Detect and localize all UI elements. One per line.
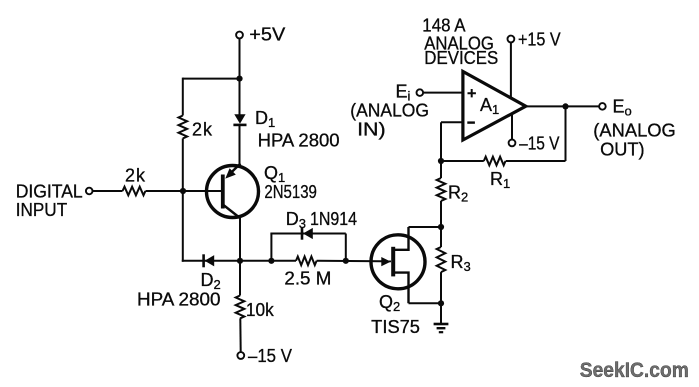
wire 2.5M to Q2 gate <box>317 260 391 263</box>
svg-text:10k: 10k <box>246 300 275 320</box>
wire D2 branch (left end to collector node) <box>182 260 240 262</box>
svg-text:+15 V: +15 V <box>518 30 561 50</box>
wire top connector to left branch <box>183 78 240 80</box>
terminal Ei <box>417 89 424 96</box>
junction source / R3-ground <box>438 300 444 306</box>
wire left branch upper <box>182 78 184 116</box>
svg-text:–15 V: –15 V <box>248 346 292 366</box>
wire collector node to 10k <box>239 261 241 296</box>
diode D2 (HPA 2800, pointing left) <box>204 254 215 267</box>
wire Ei to noninverting input <box>423 92 463 94</box>
wire Q2 drain connector <box>409 226 442 228</box>
terminal -15V (op-amp) <box>509 140 516 147</box>
diode D3 (1N914, pointing left) <box>302 227 313 239</box>
terminal Eo <box>599 103 606 110</box>
junction base node <box>180 188 186 194</box>
wire -15V stub from op-amp <box>511 114 513 140</box>
wire D2 node to D3 node <box>240 260 271 262</box>
op-amp A1 <box>463 72 526 141</box>
wire R2 to drain node <box>440 201 442 227</box>
svg-text:2k: 2k <box>192 120 213 140</box>
wire +5V rail to D1 <box>239 79 241 115</box>
wire D3 right stub <box>345 234 347 261</box>
wire +5V down to top junction <box>239 39 241 79</box>
transistor Q1 2N5139 <box>207 164 259 219</box>
wire +15V to op-amp <box>510 43 512 98</box>
junction drain / R2-R3 <box>438 224 444 230</box>
wire left branch middle <box>182 138 184 191</box>
wire 2k to Q1 base <box>146 190 223 192</box>
resistor R3 <box>437 247 446 272</box>
terminal -15V (bottom) <box>237 352 244 359</box>
wire to inverting input <box>441 121 463 123</box>
wire left branch lower <box>182 191 184 262</box>
svg-text:HPA 2800: HPA 2800 <box>258 131 340 151</box>
junction collector / D2 node <box>237 258 243 264</box>
ground <box>434 324 449 332</box>
wire inverting node down from R1 junction <box>440 161 442 178</box>
svg-text:–15 V: –15 V <box>519 134 559 154</box>
wire R1 right segment <box>506 160 566 162</box>
resistor R1 <box>484 157 506 166</box>
resistor 2k (horizontal, input) <box>123 187 146 196</box>
svg-text:INPUT: INPUT <box>16 200 68 220</box>
svg-text:HPA 2800: HPA 2800 <box>137 290 221 310</box>
resistor R2 <box>437 178 446 201</box>
wire D3 node to 2.5M <box>271 260 296 262</box>
svg-text:IN): IN) <box>357 120 386 140</box>
diode D1 (HPA 2800, pointing down) <box>233 114 246 125</box>
wire Q2 source connector <box>409 302 442 304</box>
svg-text:2.5 M: 2.5 M <box>284 269 331 289</box>
svg-text:D31N914: D31N914 <box>286 209 357 231</box>
wire Q1 collector down <box>239 217 241 262</box>
junction D3 right <box>343 258 349 264</box>
wire D1 to Q1 emitter <box>239 125 241 166</box>
svg-text:+5V: +5V <box>249 25 285 45</box>
svg-text:(ANALOG: (ANALOG <box>350 101 429 121</box>
wire input terminal to 2k <box>93 190 123 192</box>
transistor Q2 TIS75 (JFET) <box>371 227 425 303</box>
junction at top of rail <box>236 76 242 82</box>
svg-text:OUT): OUT) <box>600 140 645 160</box>
wire output <box>526 105 599 107</box>
svg-text:TIS75: TIS75 <box>371 317 420 337</box>
wire drain node to R3 <box>440 227 442 247</box>
wire source node to ground <box>440 303 442 324</box>
resistor 2k (vertical) <box>179 116 188 139</box>
svg-text:2N5139: 2N5139 <box>264 182 317 202</box>
resistor 2.5M <box>296 257 317 266</box>
wire D3 left stub <box>270 234 272 261</box>
junction D3 left <box>268 258 274 264</box>
svg-text:DIGITAL: DIGITAL <box>16 182 83 202</box>
wire feedback up to output <box>565 106 567 161</box>
wire R3 to source node <box>440 272 442 303</box>
wire 10k to -15V terminal <box>239 318 241 352</box>
terminal +15V <box>508 36 515 43</box>
terminal DIGITAL INPUT <box>86 188 93 195</box>
svg-text:(ANALOG: (ANALOG <box>593 121 676 141</box>
terminal +5V <box>236 32 243 39</box>
junction R1 / R2 / inverting input <box>438 158 444 164</box>
wire R1 left segment <box>441 160 484 162</box>
wire inverting node up <box>440 122 442 161</box>
resistor 10k <box>236 296 245 319</box>
svg-text:DEVICES: DEVICES <box>424 48 498 68</box>
wire D3 top branch <box>270 233 345 235</box>
svg-text:148 A: 148 A <box>422 16 465 36</box>
svg-text:SeekIC.com: SeekIC.com <box>580 358 689 382</box>
svg-text:2k: 2k <box>125 166 146 186</box>
junction output node <box>562 103 568 109</box>
